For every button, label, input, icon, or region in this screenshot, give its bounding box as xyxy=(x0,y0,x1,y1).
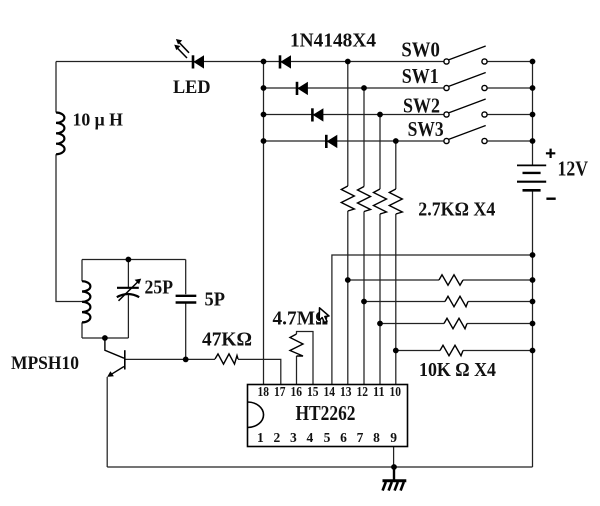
node dot ground / pin 9 xyxy=(391,464,397,470)
svg-text:LED: LED xyxy=(173,77,211,98)
resistor R8 10K (row 4 horizontal) xyxy=(440,345,463,355)
resistor R4 2.7K (vertical on pin10 rail) xyxy=(389,189,402,214)
svg-text:10 μ H: 10 μ H xyxy=(73,110,124,130)
inductor L1 10uH (left rail) xyxy=(56,113,65,155)
wire pin11 rail (diode row3 to IC pin 11) xyxy=(379,115,381,385)
svg-text:2.7KΩ X4: 2.7KΩ X4 xyxy=(418,199,495,220)
node dot SW0/right rail xyxy=(530,59,536,65)
resistor R7 10K (row 3 horizontal) xyxy=(444,318,467,328)
wire pin13 rail (diode row1 to IC pin 13) xyxy=(347,62,349,385)
wire 10K row 1 (pin13 rail to right rail) xyxy=(348,279,533,281)
wire tank bottom xyxy=(82,337,128,339)
node dot Vdd/right rail xyxy=(530,252,536,258)
wire SW3 output to right rail xyxy=(487,140,532,142)
node dot SW2/right rail xyxy=(530,112,536,118)
svg-text:16: 16 xyxy=(291,384,303,399)
node dot 10K row3 left xyxy=(377,321,383,327)
node dot row0/pin13 rail xyxy=(345,59,351,65)
wire 10K row 3 (pin11 rail to right rail) xyxy=(380,323,533,325)
label battery minus xyxy=(546,197,555,199)
resistor R3 2.7K (vertical on pin11 rail) xyxy=(374,189,387,214)
IC U1 HT2262 package xyxy=(248,385,408,447)
node dot SW1/right rail xyxy=(530,85,536,91)
svg-text:10: 10 xyxy=(390,384,402,399)
svg-text:47KΩ: 47KΩ xyxy=(202,329,252,351)
node dot 10K row1 left xyxy=(345,277,351,283)
wire top from left rail to LED and diode rail (row 0 / SW0 row) xyxy=(56,61,444,63)
node dot tank bottom / collector xyxy=(102,335,108,341)
wire SW0 output to right rail xyxy=(487,61,532,63)
svg-text:8: 8 xyxy=(373,430,380,445)
diode D1 1N4148 xyxy=(280,55,291,68)
mouse cursor artifact over ohm glyph xyxy=(319,308,329,323)
node dot 10K row4 left xyxy=(393,348,399,354)
svg-text:4.7M: 4.7M xyxy=(273,308,316,330)
svg-text:3: 3 xyxy=(290,430,297,445)
resistor R2 2.7K (vertical on pin12 rail) xyxy=(358,187,371,212)
label battery plus xyxy=(546,149,555,158)
svg-text:12V: 12V xyxy=(558,157,589,181)
svg-text:12: 12 xyxy=(357,384,369,399)
wire pin10 rail (diode row4 to IC pin 10) xyxy=(395,141,397,385)
wire 5P branch xyxy=(185,260,187,360)
LED emission arrow 2 xyxy=(174,45,187,58)
svg-text:1N4148X4: 1N4148X4 xyxy=(290,30,376,52)
diode D4 1N4148 xyxy=(326,135,337,148)
diode D2 1N4148 xyxy=(297,82,307,95)
wire row SW2 xyxy=(264,114,445,116)
svg-text:17: 17 xyxy=(274,384,286,399)
node dot row0/diode rail xyxy=(261,59,267,65)
node dot 10K row4 right xyxy=(530,348,536,354)
svg-text:MPSH10: MPSH10 xyxy=(11,353,79,374)
diode D3 1N4148 xyxy=(312,108,323,121)
transistor Q1 MPSH10 xyxy=(105,338,125,377)
svg-text:14: 14 xyxy=(324,384,336,399)
wire IC pin 9 to ground node xyxy=(393,447,395,468)
switch SW1 xyxy=(444,73,487,91)
svg-text:25P: 25P xyxy=(145,276,174,298)
switch SW0 xyxy=(444,46,487,64)
wire bottom ground rail xyxy=(107,466,532,468)
node dot row3/pin10 rail xyxy=(393,138,399,144)
svg-text:5: 5 xyxy=(324,430,331,445)
node dot tank top / 25P xyxy=(125,257,131,263)
wire 10K row 4 (pin10 rail to right rail) xyxy=(396,350,533,352)
wire row SW3 xyxy=(264,140,445,142)
wire SW1 output to right rail xyxy=(487,87,532,89)
resistor R6 10K (row 2 horizontal) xyxy=(445,296,468,306)
node dot row1/diode rail xyxy=(261,85,267,91)
wire left rail down to tank xyxy=(56,62,82,302)
wire row SW1 xyxy=(264,87,445,89)
node dot 10K row3 right xyxy=(530,321,536,327)
svg-text:15: 15 xyxy=(307,384,319,399)
svg-text:HT2262: HT2262 xyxy=(296,401,356,425)
wire transistor base to 47K to pin 17 crossing pin18 rail xyxy=(126,359,281,384)
LED emission arrow 1 xyxy=(176,39,189,53)
wire tank left side with coil xyxy=(81,260,83,339)
svg-text:7: 7 xyxy=(357,430,364,445)
wire pin16 up to 4.7M resistor and over to pin 15 xyxy=(297,332,314,385)
capacitor C1 25P variable xyxy=(117,279,141,301)
wire 25P branch xyxy=(127,260,129,339)
node dot row1/pin12 rail xyxy=(361,85,367,91)
node dot row3/diode rail xyxy=(261,138,267,144)
LED diode symbol xyxy=(193,55,204,68)
wire 10K row 2 (pin12 rail to right rail) xyxy=(364,301,533,303)
wire diode rail down to pin 18 xyxy=(263,62,265,385)
svg-text:10K Ω X4: 10K Ω X4 xyxy=(419,360,496,381)
wire Vdd node horizontal to pin 14 xyxy=(332,255,533,385)
switch SW2 xyxy=(444,99,487,117)
svg-text:2: 2 xyxy=(274,430,281,445)
node dot base / 5P xyxy=(183,357,189,363)
battery BT1 12V xyxy=(517,165,546,190)
svg-text:4: 4 xyxy=(307,430,314,445)
resistor R10 4.7M (vertical, pin16 to pin15) xyxy=(290,334,303,356)
capacitor C2 5P xyxy=(176,296,197,303)
svg-text:18: 18 xyxy=(258,384,270,399)
wire right rail from SW0 row to battery plus xyxy=(532,62,534,165)
resistor R5 10K (row 1 horizontal) xyxy=(439,275,463,285)
wire SW2 output to right rail xyxy=(487,114,532,116)
inductor L2 tank coil xyxy=(82,281,90,322)
svg-text:1: 1 xyxy=(257,430,264,445)
resistor R9 47K (horizontal in base line) xyxy=(215,354,238,364)
node dot 10K row1 right xyxy=(530,277,536,283)
svg-text:SW0: SW0 xyxy=(401,37,440,61)
wire tank top xyxy=(82,259,186,261)
node dot row2/diode rail xyxy=(261,112,267,118)
svg-text:13: 13 xyxy=(340,384,352,399)
svg-text:SW2: SW2 xyxy=(403,93,440,117)
node dot SW3/right rail xyxy=(530,138,536,144)
wire pin12 rail (diode row2 to IC pin 12) xyxy=(363,88,365,385)
node dot 10K row2 left xyxy=(361,299,367,305)
wire emitter down to bottom rail xyxy=(106,377,108,467)
resistor R1 2.7K (vertical on pin13 rail) xyxy=(341,186,354,211)
svg-text:9: 9 xyxy=(390,430,397,445)
wire right rail battery minus down to bottom wire xyxy=(532,191,534,467)
svg-text:SW3: SW3 xyxy=(408,117,444,141)
switch SW3 xyxy=(444,126,487,144)
ground symbol xyxy=(383,467,407,491)
svg-text:SW1: SW1 xyxy=(402,64,439,88)
svg-text:11: 11 xyxy=(373,384,385,399)
svg-text:6: 6 xyxy=(340,430,347,445)
node dot 10K row2 right xyxy=(530,299,536,305)
svg-text:5P: 5P xyxy=(205,289,226,311)
node dot row2/pin11 rail xyxy=(377,112,383,118)
